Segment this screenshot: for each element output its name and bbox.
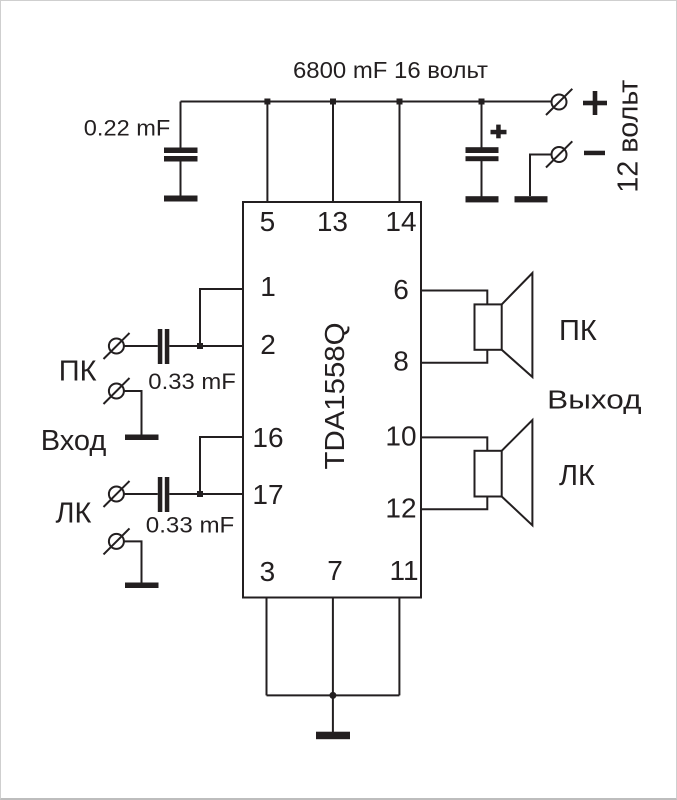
node junction pin16/pin17	[197, 491, 203, 497]
terminal input ПК	[109, 339, 124, 354]
wire 0.22mF cap to ground	[180, 161, 182, 196]
wire ground bus	[267, 694, 400, 696]
wire terminal to C4	[124, 493, 158, 495]
plus symbol of supply	[583, 101, 607, 106]
wire input ground ЛК	[124, 541, 142, 583]
wire minus terminal to ground	[530, 155, 552, 197]
op-amp U1 TDA1558Q body	[243, 202, 421, 598]
wire pin11 stub down	[398, 598, 400, 696]
terminal minus	[546, 141, 572, 167]
wire pin5 stub to rail	[266, 102, 268, 203]
svg-text:12 вольт: 12 вольт	[613, 80, 645, 193]
capacitor C3 0.33mF plates	[158, 329, 163, 364]
svg-text:2: 2	[260, 329, 276, 360]
node junction on rail at filter cap	[479, 99, 485, 105]
wire pin1 stub	[200, 289, 243, 346]
wire pin12 to speaker ЛК	[421, 497, 487, 510]
wire C4 to pin17	[169, 493, 243, 495]
svg-text:TDA1558Q: TDA1558Q	[319, 323, 350, 470]
svg-text:12: 12	[385, 493, 416, 524]
svg-text:16: 16	[252, 422, 283, 453]
wire pin7 stub down	[332, 598, 334, 696]
svg-text:ПК: ПК	[559, 315, 597, 347]
wire pin8 to speaker ПК	[421, 350, 487, 363]
wire pin14 stub to rail	[399, 102, 401, 203]
wire top supply rail	[181, 101, 552, 103]
wire pin10 to speaker ЛК	[421, 437, 487, 450]
svg-text:0.33 mF: 0.33 mF	[146, 512, 235, 537]
wire C3 to pin2	[169, 345, 243, 347]
wire pin3 stub down	[266, 598, 268, 696]
svg-text:11: 11	[389, 555, 418, 586]
ground below C1	[164, 196, 198, 202]
output left channel	[421, 420, 532, 525]
wire filter cap to ground	[481, 161, 483, 197]
polarity plus of C2	[491, 130, 507, 135]
svg-text:ЛК: ЛК	[56, 498, 92, 530]
svg-text:3: 3	[260, 556, 276, 587]
svg-text:14: 14	[385, 206, 416, 237]
capacitor C2 6800mF plates	[466, 147, 499, 153]
terminal plus	[546, 89, 572, 115]
svg-text:Выход: Выход	[547, 386, 641, 414]
svg-text:13: 13	[317, 206, 348, 237]
node junction on rail at pin5	[264, 99, 270, 105]
svg-text:6: 6	[393, 274, 409, 305]
wire 0.22mF branch from rail	[180, 102, 182, 149]
terminal input ЛК	[109, 487, 124, 502]
svg-text:ПК: ПК	[59, 356, 97, 388]
ground input ЛК	[125, 583, 159, 589]
speaker ПК	[475, 304, 502, 349]
svg-text:6800 mF 16 вольт: 6800 mF 16 вольт	[293, 57, 488, 83]
wire pin16 stub	[200, 437, 243, 494]
capacitor C1 0.22mF plates	[164, 148, 198, 154]
terminal input ground ЛК	[109, 534, 124, 549]
ground input ПК	[125, 435, 159, 441]
node junction pin1/pin2	[197, 343, 203, 349]
svg-text:0.33 mF: 0.33 mF	[148, 369, 236, 394]
svg-text:ЛК: ЛК	[559, 460, 595, 492]
svg-text:Вход: Вход	[41, 425, 107, 457]
wire bus to ground	[332, 695, 334, 732]
wire terminal to C3	[124, 345, 158, 347]
node junction ground bus	[329, 692, 336, 699]
capacitor C4 0.33mF plates	[158, 477, 163, 512]
svg-text:0.22 mF: 0.22 mF	[84, 116, 171, 141]
node junction on rail at pin14	[397, 99, 403, 105]
ground bottom section	[267, 598, 400, 733]
input left channel section	[104, 437, 244, 583]
svg-text:10: 10	[385, 421, 416, 452]
minus symbol of supply	[584, 151, 605, 156]
node junction on rail at pin13	[330, 99, 336, 105]
ground below minus terminal	[515, 196, 548, 202]
svg-text:1: 1	[260, 271, 276, 302]
wire pin13 stub to rail	[332, 102, 334, 203]
svg-text:8: 8	[393, 346, 409, 377]
input right channel section	[104, 289, 244, 435]
speaker ЛК	[475, 451, 502, 497]
svg-text:5: 5	[260, 206, 276, 237]
wire input ground	[124, 391, 142, 435]
terminal input ground ПК	[109, 384, 124, 399]
wire filter cap branch from rail	[481, 102, 483, 149]
svg-text:7: 7	[327, 555, 343, 586]
svg-text:17: 17	[252, 479, 283, 510]
wire pin6 to speaker ПК	[421, 291, 487, 305]
output right channel	[421, 273, 532, 377]
ground below C2	[466, 196, 499, 202]
ground main	[316, 732, 350, 740]
